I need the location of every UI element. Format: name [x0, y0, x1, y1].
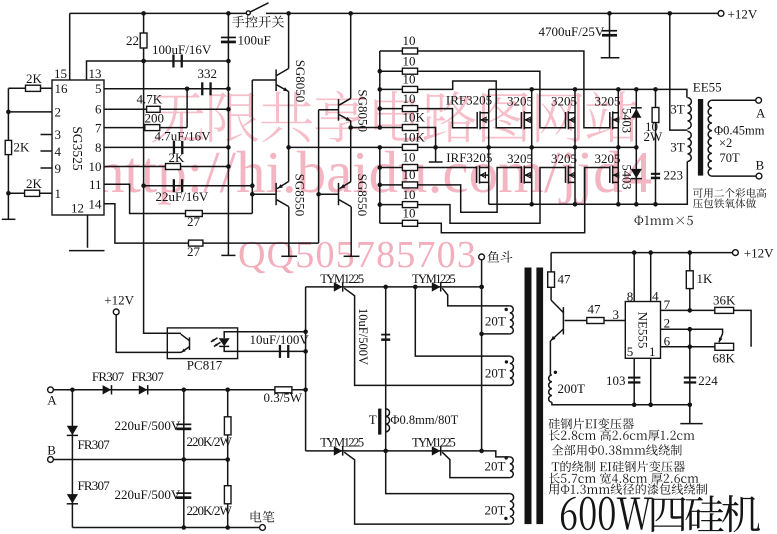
svg-text:220uF/500V: 220uF/500V [115, 487, 181, 502]
wire pin5 line [104, 88, 228, 90]
resistor 10 row2 [402, 68, 417, 74]
svg-text:7: 7 [95, 120, 102, 135]
svg-text:3205: 3205 [507, 94, 533, 109]
wire row7 left stub [380, 167, 403, 169]
svg-text:5: 5 [95, 81, 102, 96]
capacitor 220uF/500V #2 [176, 492, 191, 494]
svg-text:A: A [47, 392, 57, 407]
wire 22 resistor column [143, 13, 145, 61]
svg-text:14: 14 [89, 196, 103, 211]
svg-text:2K: 2K [14, 139, 31, 154]
svg-text:1: 1 [55, 186, 62, 201]
wire source mid bus [289, 146, 637, 148]
transistor Q4 [338, 183, 340, 205]
wire pin14 to 27 and driver B bases [104, 204, 319, 243]
svg-text:3T: 3T [670, 102, 685, 117]
note 全部用Φ0.38mm线绕制 [552, 444, 682, 455]
svg-text:8: 8 [627, 289, 634, 304]
junctions 鱼斗 column [479, 285, 484, 454]
terminal 鱼斗 [479, 254, 485, 260]
junction pin7/1K [688, 308, 693, 313]
junction dots gate bus [378, 69, 383, 207]
wire coil1 bottom to bus [482, 333, 510, 335]
diode FR307 #2 [139, 385, 148, 394]
diode 5403 top [631, 107, 642, 109]
svg-text:10uF/500V: 10uF/500V [356, 308, 370, 365]
transformer T core bar [378, 409, 381, 435]
svg-text:6: 6 [664, 333, 671, 348]
svg-text:2K: 2K [26, 71, 43, 86]
transistor M5 (IRF3205) [488, 147, 490, 204]
wire pin2/6 column to 224 [689, 329, 691, 405]
wire Q1 collector [288, 13, 290, 68]
junction dots bus B [529, 202, 657, 207]
wire timing ground column [227, 13, 229, 255]
transistor Q3 [275, 183, 277, 205]
wire left cap branch [71, 390, 73, 528]
polarity dot coil4 [504, 517, 507, 520]
wire base bus V2 (Q2/Q4) [318, 110, 320, 243]
op-amp U2 PC817 body [167, 328, 237, 359]
svg-text:A: A [756, 105, 766, 120]
svg-text:2: 2 [664, 316, 671, 331]
capacitor 10uF/100V [279, 345, 281, 358]
svg-text:FR307: FR307 [92, 369, 125, 384]
svg-text:3205: 3205 [595, 94, 621, 109]
wire ground stub (NE555) [689, 405, 691, 424]
transistor Q1 [275, 69, 277, 91]
junction driver A output [286, 145, 291, 150]
svg-text:9: 9 [55, 161, 62, 176]
junction dots bottom line [182, 525, 231, 530]
diode (PC817 LED) [224, 332, 237, 352]
resistor 10 row1 [402, 48, 417, 54]
svg-text:4.7K: 4.7K [137, 92, 163, 107]
wire TYM bottom line [306, 451, 510, 457]
wire B line [53, 459, 227, 461]
svg-text:3: 3 [613, 307, 620, 322]
wire PC817 pin out bottom via 10uF/100V [238, 350, 306, 352]
svg-text:FR307: FR307 [78, 437, 111, 452]
resistor 10K row6 [402, 144, 417, 150]
wire Q2/Q4 emitter column [350, 121, 352, 182]
transistor (PC817 photo) [189, 337, 191, 350]
resistor 220K/2W #2 [224, 486, 231, 504]
capacitor 4.7uF/16V [173, 141, 175, 154]
wire pin13 via 100uF/16V to node [87, 61, 229, 80]
wire row10 to FET4b gate [418, 168, 610, 233]
capacitor 100uF/16V [172, 55, 174, 68]
wire row3 left stub [380, 88, 403, 90]
wire row10 left stub [380, 222, 403, 224]
coil 20T #4 [510, 494, 514, 524]
wire pin4 to rail [650, 253, 652, 302]
wire +12V to PC817 pin2 [116, 315, 167, 353]
label 手控开关 [232, 16, 284, 28]
wire 鱼斗 column [481, 260, 483, 451]
terminal A [756, 97, 762, 103]
svg-text:10K: 10K [403, 110, 426, 125]
resistor 10 row8 [402, 182, 417, 188]
wire PC817 inner bottom-left [167, 351, 181, 353]
wire row4 left stub [380, 108, 403, 110]
svg-text:20T: 20T [485, 503, 506, 518]
wire pin4 stub [41, 150, 53, 152]
wire pin10 line [104, 166, 228, 168]
svg-text:224: 224 [698, 373, 718, 388]
wire pin7 line via 36K [661, 310, 752, 346]
wire node column x305 [305, 287, 307, 451]
terminal +12V (NE555) [733, 250, 739, 256]
watermark line1 [152, 91, 637, 143]
svg-text:4.7uF/16V: 4.7uF/16V [155, 128, 212, 143]
svg-text:10K: 10K [403, 130, 426, 145]
svg-text:3T: 3T [670, 140, 685, 155]
wire TYM#1 gate to coil2 bottom [344, 288, 510, 385]
svg-text:×2: ×2 [719, 136, 732, 150]
svg-text:SG8550: SG8550 [293, 174, 308, 217]
note 长2.8cm... [549, 429, 695, 440]
svg-text:TYM1225: TYM1225 [412, 272, 456, 286]
terminal B [756, 173, 762, 179]
capacitor 220uF/500V #1 [176, 424, 191, 426]
wire snubber column 10-2W + 223 [655, 89, 657, 204]
thyristor TYM1225 #1 [334, 282, 343, 291]
svg-text:10uF/100V: 10uF/100V [250, 332, 310, 347]
svg-text:11: 11 [89, 177, 102, 192]
junction dots bus A [529, 87, 657, 92]
svg-text:EE55: EE55 [693, 80, 722, 95]
wire PC817 pin out top [238, 331, 306, 333]
svg-text:6: 6 [95, 102, 102, 117]
svg-text:7: 7 [664, 297, 671, 312]
svg-text:47: 47 [588, 302, 602, 317]
polarity dot coil1 [505, 308, 508, 311]
svg-text:NE555: NE555 [636, 312, 651, 349]
note 压包铁氧体做 [693, 199, 756, 209]
junction dots bottom rail NE555 [632, 403, 692, 408]
resistor 22 [140, 33, 147, 48]
wire row9 to FET3b gate [418, 168, 566, 224]
svg-text:FR307: FR307 [132, 369, 165, 384]
resistor 47 #2 [587, 318, 604, 324]
coil 20T #2 [510, 356, 514, 385]
note 硅钢片EI变压器 [549, 418, 634, 429]
label 电笔 [251, 511, 275, 523]
ground bar (timing column) [221, 254, 235, 256]
ground bar (10K#1) [429, 161, 443, 163]
transistor Q2 [338, 99, 340, 121]
potentiometer 68K wiper arrow [719, 334, 723, 343]
wire +12V top rail (left of switch) [70, 12, 246, 14]
wire center tap +12V feed [670, 13, 688, 130]
svg-text:10: 10 [403, 53, 416, 68]
wire pin1 line [8, 192, 52, 194]
wire TYM#2 gate to coil1 top [442, 288, 510, 306]
resistor 10 row7 [402, 165, 417, 171]
junction dots B line [182, 457, 231, 462]
svg-text:47: 47 [558, 271, 572, 286]
junction pin6 node [688, 345, 693, 350]
junctions on V1 [250, 183, 255, 196]
svg-text:3205: 3205 [551, 151, 577, 166]
note 可用二个彩电高 [693, 188, 766, 198]
svg-text:223: 223 [664, 167, 684, 182]
svg-text:22uF/16V: 22uF/16V [156, 189, 209, 204]
wire Q4 collector to ground [350, 207, 352, 256]
svg-text:TYM1225: TYM1225 [320, 272, 364, 286]
wire left rail [7, 88, 9, 219]
wire BG emitter to 200T [549, 341, 551, 375]
capacitor 103 [628, 377, 640, 379]
ground bar (left rail) [2, 218, 16, 220]
svg-text:2W: 2W [644, 129, 664, 144]
wire row2 left stub [380, 70, 403, 72]
svg-text:TYM1225: TYM1225 [412, 436, 456, 450]
wire Q2 collector [350, 13, 352, 98]
svg-text:36K: 36K [713, 293, 736, 308]
svg-text:27: 27 [187, 214, 201, 229]
resistor 2K (pin16) [26, 85, 41, 91]
resistor 27 (pin11) [186, 211, 203, 217]
wire 10K#1 right to ground stub [418, 128, 436, 162]
svg-text:10: 10 [403, 187, 416, 202]
core EI bar 2 [536, 268, 543, 525]
wire 1K column [689, 253, 691, 311]
svg-text:10: 10 [403, 150, 416, 165]
svg-text:16: 16 [55, 81, 69, 96]
svg-text:100uF: 100uF [238, 33, 271, 48]
wire pin5 to 103 [633, 358, 635, 405]
capacitor 224 [684, 377, 696, 379]
resistor 0.3/5W [275, 387, 292, 393]
ground bar (pin12) [69, 250, 105, 252]
label Φ1mm×5 [635, 216, 693, 225]
svg-text:TYM1225: TYM1225 [320, 436, 364, 450]
svg-text:200T: 200T [558, 381, 586, 396]
wire T-primary column [386, 287, 510, 494]
svg-text:200: 200 [145, 111, 165, 126]
terminal A (input) [48, 387, 54, 393]
note 用Φ1.3mm... [549, 483, 708, 494]
wire row1 to FET4t gate [418, 51, 610, 128]
resistor 2K (pin1) [25, 190, 40, 196]
resistor 4.7K [147, 106, 161, 112]
svg-text:12: 12 [71, 201, 84, 216]
wire pin7 line [104, 127, 187, 129]
svg-text:3205: 3205 [595, 151, 621, 166]
resistor 47 #1 [548, 272, 555, 287]
svg-text:5403: 5403 [620, 165, 634, 190]
svg-text:27: 27 [187, 244, 201, 259]
junction dots on top rail [141, 11, 672, 16]
svg-text:1: 1 [649, 344, 656, 359]
svg-text:+12V: +12V [744, 246, 774, 261]
svg-text:103: 103 [606, 373, 626, 388]
wire +12V top rail (right of switch) [266, 12, 718, 14]
svg-text:FR307: FR307 [78, 478, 111, 493]
wire row2 to FET3t gate [418, 71, 566, 128]
svg-text:3205: 3205 [507, 151, 533, 166]
resistor 27 (pin14) [189, 240, 203, 246]
svg-text:4: 4 [55, 144, 62, 159]
junctions on x305 column [303, 329, 308, 392]
wire Vref column down to PC817 [144, 61, 168, 333]
junction dots left rail [6, 110, 11, 196]
op-amp U3 NE555 body [625, 302, 660, 359]
svg-text:0.3/5W: 0.3/5W [264, 390, 303, 405]
svg-text:10: 10 [403, 72, 416, 87]
wire pin15 to rail [69, 13, 71, 80]
label 鱼斗 [488, 251, 513, 263]
wire 4700uF column [609, 13, 611, 57]
svg-text:B: B [47, 443, 56, 458]
transistor M2 (3205) [531, 89, 533, 147]
polarity dot coil3 [505, 456, 508, 459]
wire row8 left stub [380, 184, 403, 186]
resistor 2K (pin10) [166, 164, 181, 170]
thyristor TYM1225 #2 [432, 282, 441, 291]
coil 20T #3 [510, 457, 513, 478]
wire base bus V1 (Q1/Q3) [251, 80, 253, 214]
resistor 2K (middle) [5, 140, 11, 154]
primary coil 3T bottom (EE55) [688, 131, 692, 161]
svg-text:SG8550: SG8550 [355, 174, 370, 217]
transistor M4 (3205) [617, 89, 619, 147]
wire drain bus A [489, 89, 687, 97]
terminal 电笔 [260, 525, 266, 531]
wire row9 left stub [380, 204, 403, 206]
transformer T primary 80T [386, 409, 390, 432]
wire row1 left stub [380, 50, 403, 52]
svg-text:20T: 20T [485, 314, 506, 329]
svg-text:15: 15 [54, 66, 67, 81]
svg-text:+12V: +12V [728, 6, 758, 21]
svg-text:3: 3 [55, 127, 62, 142]
capacitor 332 [201, 82, 203, 95]
wire 47#1 column [550, 253, 552, 301]
wire pin8 to rail [633, 253, 635, 302]
wire pin2 line to wiper [661, 329, 723, 333]
junction dots TYM top line [383, 285, 484, 290]
diode FR307 #4 [67, 494, 78, 503]
wire gate bus segment A [379, 51, 381, 128]
wire 220uF column [183, 390, 185, 528]
svg-text:5403: 5403 [620, 108, 634, 133]
terminal +12V (PC817 feed) [113, 309, 119, 315]
svg-text:T: T [369, 412, 377, 427]
wire 200-to-pin5 vertical [186, 89, 188, 128]
wire pin3 stub [41, 134, 53, 136]
wire pin16 line [8, 87, 52, 89]
polarity dot coil2 [505, 360, 508, 363]
svg-text:IRF3205: IRF3205 [446, 92, 492, 107]
svg-text:220K/2W: 220K/2W [187, 434, 233, 449]
wire 5403 clamp column [635, 89, 637, 204]
svg-text:SG8050: SG8050 [293, 60, 308, 103]
svg-text:220uF/500V: 220uF/500V [115, 418, 181, 433]
wire Q3 base lead [252, 193, 276, 195]
svg-text:1K: 1K [697, 271, 714, 286]
svg-text:20T: 20T [485, 459, 506, 474]
wire secondary bottom to B [712, 175, 756, 177]
svg-text:2K: 2K [26, 176, 43, 191]
wire row7 to FET1b gate [418, 167, 477, 169]
svg-text:5: 5 [627, 344, 634, 359]
polarity dot 200T [554, 371, 557, 374]
svg-text:22: 22 [126, 33, 139, 48]
junction T-primary bottom [383, 449, 388, 454]
capacitor 4700uF/25V [602, 30, 617, 32]
ground bar (Q3) [281, 255, 297, 257]
wire pin11 to 27 and driver A bases [104, 184, 252, 213]
transistor M8 (3205) [617, 147, 619, 204]
svg-text:4700uF/25V: 4700uF/25V [539, 24, 605, 39]
wire 47#2 pin3 line [565, 320, 626, 322]
svg-text:+12V: +12V [104, 293, 134, 308]
coil 200T [549, 375, 552, 402]
wire row3 to FET2t gate [418, 81, 522, 128]
resistor 10 2W [652, 108, 659, 123]
thyristor TYM1225 #3 [334, 446, 343, 455]
junction on V2 [316, 192, 321, 197]
wire pin6 line [104, 108, 228, 110]
svg-text:3205: 3205 [551, 94, 577, 109]
ground bar (NE555) [680, 423, 702, 425]
svg-text:B: B [756, 158, 765, 173]
junction pin5/200 node [185, 87, 190, 92]
wire coil2 top feed [415, 287, 510, 356]
wire pin1 down [650, 358, 652, 405]
wire Q1/Q3 emitter column [288, 91, 290, 181]
potentiometer 68K body [715, 343, 734, 350]
wire pin9 stub [41, 167, 53, 169]
capacitor 223 (snubber) [651, 173, 660, 175]
capacitor 100uF (switch node) [221, 37, 236, 39]
wire row8 to FET2b gate [418, 168, 522, 213]
svg-text:PC817: PC817 [187, 357, 223, 372]
svg-text:10: 10 [403, 91, 416, 106]
primary coil 3T top (EE55) [688, 98, 692, 129]
wire 220K column [227, 390, 229, 528]
capacitor 10uF/500V [381, 334, 390, 336]
svg-text:SG8050: SG8050 [356, 89, 371, 132]
terminal B (input) [48, 457, 54, 463]
secondary coil 70T (EE55) [708, 100, 712, 176]
svg-text:2K: 2K [169, 150, 186, 165]
svg-text:Φ0.8mm/80T: Φ0.8mm/80T [390, 413, 458, 427]
junction dots Vref column [141, 59, 146, 188]
svg-text:100uF/16V: 100uF/16V [152, 42, 212, 57]
wire PC817 inner top-left [167, 332, 181, 334]
junction dots mid bus [433, 145, 638, 150]
wire pin2 line [8, 111, 52, 113]
svg-text:220K/2W: 220K/2W [187, 503, 233, 518]
svg-text:SG3525: SG3525 [70, 126, 85, 171]
resistor 220K/2W #1 [224, 417, 231, 435]
wire gate bus segment B [379, 147, 381, 223]
transistor M3 (3205) [574, 89, 576, 147]
wire driver B line to 10K [351, 127, 403, 129]
note 长5.7cm... [549, 473, 699, 484]
title 600W四硅机 [561, 497, 652, 530]
resistor 10 row3 [402, 86, 417, 92]
coil 20T #1 [510, 306, 514, 334]
wire Q1 base lead [252, 79, 276, 81]
wire Q3 collector to ground [288, 207, 290, 256]
wire TYM top line [306, 286, 482, 288]
resistor 10K row5 [402, 125, 417, 131]
